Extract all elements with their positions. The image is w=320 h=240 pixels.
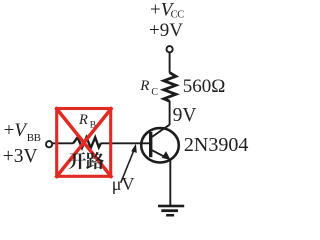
wire VCC terminal to RC bbox=[169, 53, 171, 73]
svg-text:CC: CC bbox=[171, 9, 185, 20]
wire RC to collector junction bbox=[169, 101, 171, 125]
resistor RB bbox=[73, 137, 101, 148]
svg-text:+V: +V bbox=[4, 120, 29, 141]
terminal VBB bbox=[46, 141, 52, 147]
resistor RC bbox=[164, 73, 176, 102]
svg-text:9V: 9V bbox=[173, 105, 197, 126]
label RB bbox=[78, 112, 96, 131]
label open-circuit (kai lu) bbox=[69, 152, 104, 169]
label RC bbox=[139, 78, 158, 98]
svg-text:560Ω: 560Ω bbox=[183, 76, 226, 97]
svg-text:+3V: +3V bbox=[3, 146, 38, 167]
svg-text:R: R bbox=[139, 78, 149, 94]
arrow uV probe to base bbox=[121, 149, 135, 183]
svg-text:μV: μV bbox=[112, 174, 135, 194]
wire emitter to ground bbox=[169, 160, 171, 206]
svg-text:C: C bbox=[151, 87, 158, 98]
svg-text:+9V: +9V bbox=[149, 20, 183, 41]
wire VBB terminal to RB bbox=[53, 142, 74, 144]
ground bbox=[158, 205, 184, 217]
svg-text:BB: BB bbox=[27, 132, 41, 144]
transistor Q1 2N3904 bbox=[141, 125, 179, 163]
open-circuit annotation box with X bbox=[56, 107, 113, 177]
wire RB to base bbox=[101, 142, 150, 144]
label +VBB bbox=[4, 120, 41, 144]
svg-text:2N3904: 2N3904 bbox=[184, 134, 248, 156]
svg-text:R: R bbox=[78, 112, 88, 128]
label +VCC bbox=[150, 0, 184, 21]
terminal VCC bbox=[167, 46, 173, 52]
